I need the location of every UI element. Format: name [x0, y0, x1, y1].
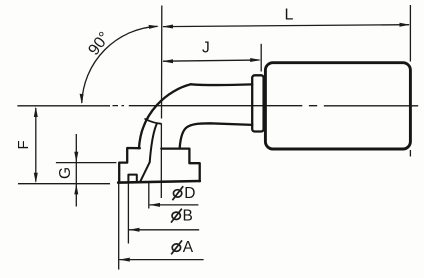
svg-text:F: F: [15, 140, 32, 149]
svg-text:B: B: [183, 207, 193, 224]
svg-text:D: D: [184, 185, 195, 202]
svg-text:J: J: [202, 39, 210, 56]
svg-text:L: L: [285, 6, 294, 23]
svg-text:G: G: [57, 167, 74, 179]
svg-text:A: A: [183, 239, 194, 256]
svg-text:90°: 90°: [85, 29, 113, 59]
